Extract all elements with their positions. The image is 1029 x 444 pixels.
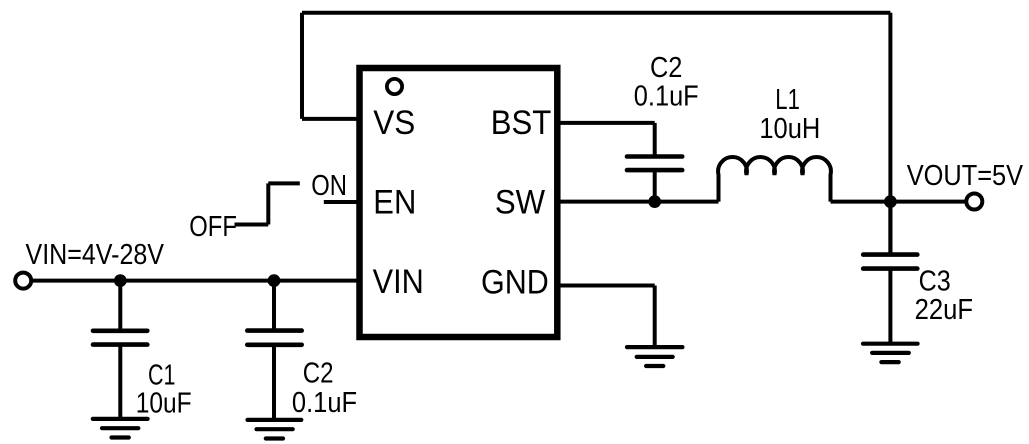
svg-text:BST: BST (491, 104, 552, 142)
capacitor C2 bootstrap plates (627, 157, 682, 171)
wire: C3 lower lead (888, 269, 892, 344)
wire: C3 upper lead (888, 202, 892, 255)
node: VIN/C1 junction dot (114, 274, 127, 287)
ground symbol under C3 (863, 344, 918, 362)
svg-text:VS: VS (373, 104, 415, 142)
wire: C2 bootstrap upper lead (653, 123, 657, 157)
wire: feedback vertical left (300, 13, 304, 119)
inductor L1 body (718, 157, 831, 202)
wire: GND pin stub (557, 284, 655, 288)
wire: feedback top horizontal (302, 11, 890, 15)
capacitor C3 plates (863, 255, 917, 269)
wire: BST pin stub (557, 121, 655, 125)
terminal: VIN input (15, 273, 31, 289)
wire: inductor to VOUT node (831, 200, 891, 204)
svg-text:C2: C2 (303, 358, 334, 390)
ground symbol under C2 input (248, 420, 302, 439)
svg-text:C1: C1 (148, 359, 175, 391)
wire: EN pin stub (324, 200, 360, 204)
svg-text:0.1uF: 0.1uF (292, 387, 357, 419)
IC U1 body (360, 68, 558, 337)
svg-text:SW: SW (495, 184, 546, 222)
terminal: VOUT output (966, 194, 982, 210)
wire: VOUT node to output terminal (890, 200, 964, 204)
svg-text:10uH: 10uH (759, 113, 820, 145)
wire: C1 upper lead (118, 281, 122, 331)
wire: C1 lower lead (118, 345, 122, 418)
wire: VIN rail (33, 279, 360, 283)
ground symbol under C1 (93, 419, 148, 438)
wire: ON/OFF step vertical (266, 183, 270, 224)
capacitor C2 input plates (247, 331, 301, 345)
node: VIN/C2 junction dot (268, 274, 281, 287)
wire: OFF level segment (235, 223, 269, 227)
svg-text:VIN=4V-28V: VIN=4V-28V (26, 239, 165, 271)
svg-text:10uF: 10uF (136, 388, 192, 420)
ground symbol at GND pin (627, 347, 682, 366)
svg-text:OFF: OFF (189, 211, 237, 243)
wire: feedback vertical right into VOUT node (888, 13, 892, 255)
capacitor C1 plates (93, 331, 147, 345)
svg-text:VOUT=5V: VOUT=5V (907, 160, 1024, 192)
svg-text:ON: ON (311, 170, 347, 202)
wire: ON level segment (268, 181, 300, 185)
wire: C2 input lower lead (272, 345, 276, 419)
wire: C2 bootstrap lower lead (653, 170, 657, 202)
wire: C2 input upper lead (272, 281, 276, 331)
svg-text:C3: C3 (919, 265, 951, 297)
svg-text:VIN: VIN (373, 263, 424, 301)
svg-text:GND: GND (481, 263, 549, 301)
svg-text:EN: EN (373, 184, 416, 222)
svg-text:22uF: 22uF (915, 294, 973, 326)
svg-text:C2: C2 (650, 52, 682, 84)
node: VOUT junction dot (884, 195, 897, 208)
wire: SW pin to inductor (557, 200, 719, 204)
svg-text:L1: L1 (775, 84, 800, 116)
wire: GND pin down lead (653, 286, 657, 348)
wire: VS pin stub (302, 117, 360, 121)
IC pin-1 indicator circle (387, 79, 402, 94)
svg-text:0.1uF: 0.1uF (634, 81, 699, 113)
node: SW/BST junction dot (648, 195, 661, 208)
